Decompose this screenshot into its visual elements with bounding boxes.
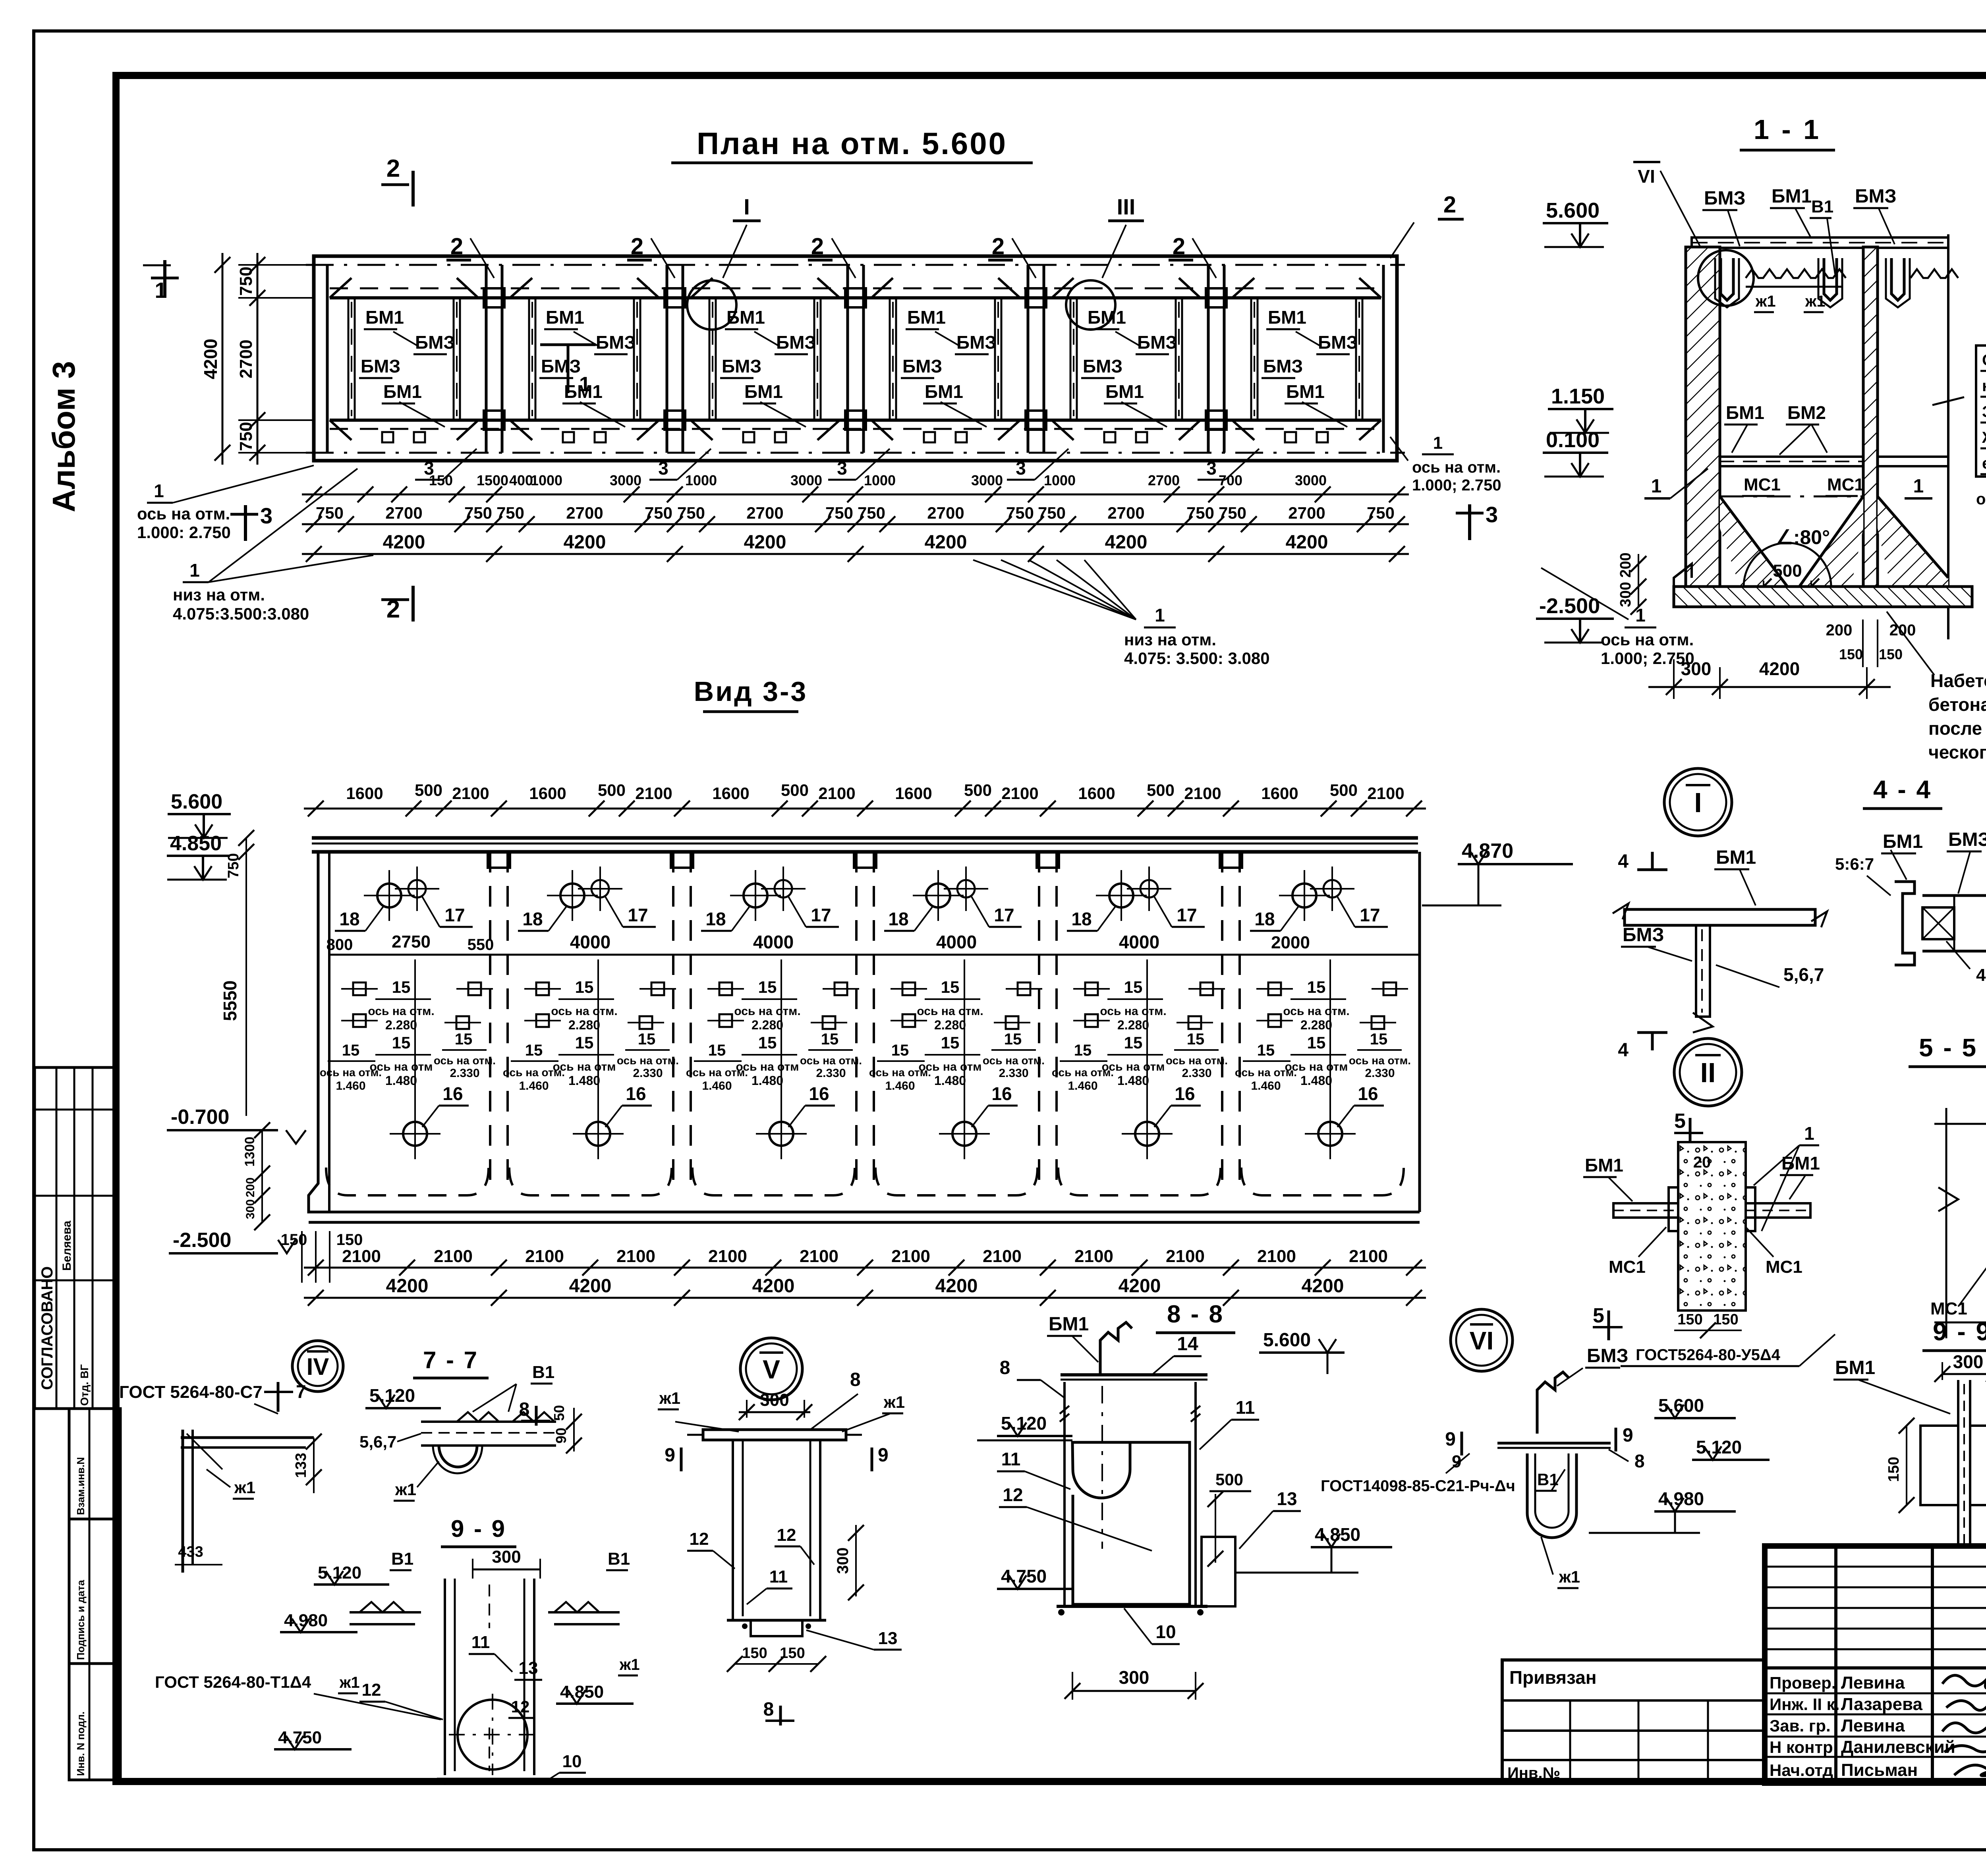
svg-text:400: 400	[509, 472, 533, 488]
svg-text:4200: 4200	[383, 532, 425, 553]
svg-text:12: 12	[362, 1680, 381, 1700]
svg-text:5 - 5: 5 - 5	[1919, 1033, 1978, 1062]
svg-text:БМЗ: БМЗ	[776, 332, 816, 353]
svg-text:750: 750	[1219, 504, 1246, 522]
view 3-3 mid horizontal line	[329, 954, 1420, 956]
section 1-1 right cut line	[1947, 234, 1949, 639]
svg-text:1.460: 1.460	[1068, 1079, 1097, 1092]
svg-text:низ на отм.: низ на отм.	[173, 585, 265, 604]
svg-text:Зав. гр.: Зав. гр.	[1770, 1716, 1831, 1735]
view 3-3 square anchors 15	[353, 982, 366, 995]
svg-text:3000: 3000	[790, 472, 822, 488]
svg-text:БМЗ: БМЗ	[1137, 332, 1177, 353]
svg-text:2100: 2100	[800, 1247, 838, 1266]
svg-text:3: 3	[1016, 458, 1026, 479]
svg-text:17: 17	[1360, 905, 1380, 925]
svg-text:Инв. N подл.: Инв. N подл.	[75, 1712, 87, 1776]
svg-text:ось на отм.: ось на отм.	[917, 1005, 983, 1018]
svg-text:В1: В1	[391, 1549, 413, 1569]
svg-text:2: 2	[1443, 192, 1456, 218]
svg-text:18: 18	[339, 909, 359, 929]
plan interior stub partitions	[348, 298, 350, 420]
svg-text:15: 15	[525, 1042, 543, 1059]
svg-text:БМЗ: БМЗ	[1948, 829, 1986, 850]
svg-text:Набетонка из: Набетонка из	[1930, 670, 1986, 691]
svg-text:1.000: 2.750: 1.000: 2.750	[137, 523, 231, 542]
svg-text:18: 18	[1071, 909, 1092, 929]
svg-text:9: 9	[1623, 1425, 1633, 1446]
svg-text:ной краской светлых тонов: ной краской светлых тонов	[1982, 377, 1986, 395]
svg-text:1600: 1600	[1078, 784, 1115, 803]
svg-text:БМЗ: БМЗ	[956, 332, 996, 353]
svg-text:I: I	[1694, 787, 1702, 818]
svg-text:2100: 2100	[1074, 1247, 1113, 1266]
svg-text:2.280: 2.280	[1300, 1018, 1332, 1032]
svg-text:БМ1: БМ1	[1105, 381, 1144, 402]
svg-text:2.330: 2.330	[999, 1067, 1028, 1080]
view 3-3 bottom dashed line	[326, 1168, 489, 1195]
plan dimension chain row1	[302, 494, 1409, 496]
svg-text:18: 18	[522, 909, 543, 929]
svg-text:15: 15	[891, 1042, 909, 1059]
svg-text:ось на отм.: ось на отм.	[1166, 1054, 1228, 1067]
svg-text:750: 750	[1038, 504, 1066, 522]
svg-text:5:6:7: 5:6:7	[1835, 855, 1874, 873]
svg-text:VI: VI	[1470, 1326, 1493, 1355]
svg-text:Альбом 3: Альбом 3	[46, 361, 81, 512]
svg-text:2100: 2100	[818, 784, 855, 803]
svg-text:МС1: МС1	[1827, 475, 1864, 494]
view 3-3 bottom solid band	[309, 1221, 1420, 1224]
svg-text:Окраска поливинилацетат: Окраска поливинилацетат	[1982, 351, 1986, 369]
svg-text:4.750: 4.750	[278, 1728, 322, 1747]
svg-text:4200: 4200	[925, 532, 967, 553]
svg-text:18: 18	[705, 909, 726, 929]
svg-text:2: 2	[992, 234, 1005, 259]
node V circle	[740, 1338, 802, 1400]
svg-text:2100: 2100	[1184, 784, 1221, 803]
svg-text:1.480: 1.480	[568, 1073, 600, 1088]
svg-text:4 - 4: 4 - 4	[1873, 775, 1932, 804]
title block left columns	[1834, 1546, 1837, 1783]
svg-text:3: 3	[658, 458, 668, 479]
svg-text:ж1: ж1	[1755, 293, 1776, 310]
svg-text:5: 5	[1674, 1110, 1686, 1133]
svg-text:ось на отм.: ось на отм.	[983, 1054, 1045, 1067]
section 1-1 roof slab	[1692, 237, 1948, 248]
section 1-1 anchor U profiles	[1721, 258, 1733, 300]
svg-text:4200: 4200	[744, 532, 786, 553]
svg-text:4200: 4200	[569, 1276, 612, 1297]
svg-text:ж1: ж1	[883, 1393, 905, 1411]
svg-text:750: 750	[677, 504, 705, 522]
svg-text:ось на отм.: ось на отм.	[1349, 1054, 1411, 1067]
svg-text:4: 4	[1618, 1040, 1629, 1061]
svg-text:ось на отм.: ось на отм.	[320, 1066, 382, 1079]
svg-text:ось на отм.: ось на отм.	[1100, 1005, 1166, 1018]
svg-text:БМ1: БМ1	[1049, 1314, 1089, 1335]
svg-text:17: 17	[1177, 905, 1197, 925]
svg-text:1.460: 1.460	[336, 1079, 365, 1092]
title block outer	[1765, 1546, 1986, 1783]
svg-text:Инж. II к.: Инж. II к.	[1770, 1695, 1839, 1714]
svg-text:2.280: 2.280	[568, 1018, 600, 1032]
svg-text:1.000; 2.750: 1.000; 2.750	[1412, 477, 1501, 494]
svg-text:3000: 3000	[971, 472, 1003, 488]
svg-text:В1: В1	[532, 1363, 554, 1382]
plan bottom interior wall line	[330, 419, 1381, 422]
svg-text:БМ1: БМ1	[1772, 186, 1812, 207]
svg-text:1600: 1600	[895, 784, 932, 803]
svg-text:2700: 2700	[746, 504, 783, 522]
svg-text:Взам.инв.N: Взам.инв.N	[75, 1457, 87, 1515]
svg-text:8: 8	[850, 1369, 861, 1390]
svg-text:1600: 1600	[712, 784, 749, 803]
svg-text:7: 7	[296, 1381, 306, 1402]
svg-text:15: 15	[708, 1042, 726, 1059]
svg-text:2700: 2700	[927, 504, 964, 522]
section 1-1 middle wall hatched	[1863, 247, 1878, 587]
svg-text:2700: 2700	[1107, 504, 1144, 522]
svg-text:Привязан: Привязан	[1509, 1667, 1597, 1688]
detail 8-8 inner vessel	[1072, 1442, 1190, 1604]
svg-text:800: 800	[326, 936, 353, 953]
svg-text:ось на отм.: ось на отм.	[1052, 1066, 1114, 1079]
svg-text:емкости РЕ 1: емкости РЕ 1	[1982, 455, 1986, 472]
svg-text:I: I	[744, 194, 750, 219]
svg-text:В1: В1	[608, 1549, 630, 1569]
svg-text:3000: 3000	[1295, 472, 1327, 488]
plan dimension chain row2	[302, 523, 1409, 525]
svg-text:9: 9	[1445, 1429, 1456, 1450]
svg-text:3: 3	[1206, 458, 1217, 479]
svg-text:ось на отм.: ось на отм.	[869, 1066, 931, 1079]
svg-text:Затирка цементно-песч. р-ос: Затирка цементно-песч. р-ос	[1982, 403, 1986, 421]
svg-text:4200: 4200	[1759, 658, 1800, 679]
svg-text:4200: 4200	[1286, 532, 1328, 553]
svg-text:Данилевский: Данилевский	[1841, 1737, 1955, 1757]
svg-text:1500: 1500	[477, 472, 508, 488]
svg-text:8: 8	[1634, 1451, 1645, 1471]
svg-text:3: 3	[837, 458, 847, 479]
svg-text:5: 5	[1593, 1304, 1604, 1327]
svg-text:-0.700: -0.700	[171, 1106, 229, 1129]
svg-text:2100: 2100	[708, 1247, 747, 1266]
svg-text:БМЗ: БМЗ	[1318, 332, 1358, 353]
svg-text:БМЗ: БМЗ	[902, 356, 942, 376]
svg-text:750: 750	[1186, 504, 1214, 522]
svg-text:15: 15	[638, 1031, 656, 1048]
svg-text:1000: 1000	[864, 472, 896, 488]
svg-text:150: 150	[1713, 1311, 1738, 1328]
svg-text:500: 500	[598, 781, 626, 799]
svg-text:2750: 2750	[392, 932, 431, 952]
view 3-3 anchors 18/17 per bay	[377, 884, 401, 907]
svg-text:БМЗ: БМЗ	[541, 356, 581, 376]
svg-text:4.850: 4.850	[170, 832, 222, 855]
svg-text:17: 17	[811, 905, 831, 925]
svg-text:4200: 4200	[1302, 1276, 1344, 1297]
svg-text:2100: 2100	[525, 1247, 564, 1266]
svg-text:ось на отм.: ось на отм.	[1412, 459, 1501, 476]
svg-text:15: 15	[1074, 1042, 1092, 1059]
svg-text:ось на отм.: ось на отм.	[1235, 1066, 1297, 1079]
svg-text:3000: 3000	[610, 472, 641, 488]
svg-text:1: 1	[1804, 1123, 1814, 1144]
svg-text:БМ1: БМ1	[546, 307, 584, 328]
svg-text:1.480: 1.480	[1117, 1073, 1149, 1088]
svg-text:ческого оборудования: ческого оборудования	[1928, 742, 1986, 762]
svg-text:БМ1: БМ1	[1726, 402, 1764, 423]
svg-text:2100: 2100	[983, 1247, 1022, 1266]
svg-text:8 - 8: 8 - 8	[1167, 1301, 1224, 1328]
svg-text:11: 11	[471, 1633, 490, 1652]
svg-text:750: 750	[236, 266, 256, 295]
svg-text:17: 17	[628, 905, 648, 925]
svg-text:8: 8	[519, 1399, 530, 1420]
svg-text:1.480: 1.480	[752, 1073, 783, 1088]
svg-text:5.600: 5.600	[1546, 199, 1600, 222]
svg-text:3: 3	[260, 503, 272, 528]
svg-text:2700: 2700	[1148, 472, 1180, 488]
svg-text:500: 500	[964, 781, 992, 799]
svg-text:после монтажа технолош-: после монтажа технолош-	[1928, 718, 1986, 739]
svg-text:Отд. ВГ: Отд. ВГ	[78, 1364, 91, 1406]
svg-text:ж1: ж1	[395, 1480, 416, 1499]
view 3-3 bay divider dashed lines	[489, 852, 491, 1183]
svg-text:1.460: 1.460	[885, 1079, 915, 1092]
svg-text:300: 300	[760, 1390, 789, 1410]
section 1-1 corrugated sheet B1	[1746, 269, 1846, 278]
svg-text:БМ1: БМ1	[907, 307, 946, 328]
svg-text:БМ1: БМ1	[925, 381, 963, 402]
svg-text:2100: 2100	[452, 784, 489, 803]
svg-text:ось на отм.: ось на отм.	[551, 1005, 617, 1018]
svg-text:4.075: 3.500: 3.080: 4.075: 3.500: 3.080	[1124, 649, 1270, 668]
svg-text:20: 20	[1693, 1154, 1711, 1171]
svg-text:300 200: 300 200	[1617, 552, 1634, 607]
svg-text:ось на отм.: ось на отм.	[1601, 630, 1694, 649]
plan left vertical dimensions	[257, 253, 259, 465]
svg-text:2.330: 2.330	[450, 1067, 479, 1080]
svg-text:БМ1: БМ1	[365, 307, 404, 328]
plan partition walls	[326, 265, 329, 453]
binding table Привязан	[1502, 1660, 1765, 1783]
svg-text:Железобетонная стенка: Железобетонная стенка	[1982, 429, 1986, 446]
svg-text:200: 200	[1826, 621, 1853, 639]
svg-text:низ на отм.: низ на отм.	[1124, 630, 1216, 649]
svg-text:4.750: 4.750	[1001, 1566, 1047, 1586]
svg-text:5.120: 5.120	[1696, 1437, 1742, 1457]
svg-text:Инв.№: Инв.№	[1507, 1764, 1560, 1782]
svg-text:5.120: 5.120	[1001, 1413, 1047, 1434]
svg-text:Вид 3-3: Вид 3-3	[694, 676, 808, 707]
note окраска box	[1976, 345, 1986, 477]
svg-text:2: 2	[386, 155, 400, 182]
svg-text:15: 15	[392, 978, 411, 996]
svg-text:15: 15	[1187, 1031, 1205, 1048]
svg-text:300: 300	[1119, 1667, 1149, 1688]
svg-text:500: 500	[1773, 561, 1802, 581]
section 1-1 hopper slopes hatched	[1720, 496, 1787, 587]
svg-text:14: 14	[1177, 1334, 1198, 1355]
node VI circle	[1451, 1309, 1513, 1371]
svg-text:1.460: 1.460	[519, 1079, 549, 1092]
svg-text:200: 200	[1889, 621, 1916, 639]
svg-text:2: 2	[631, 234, 643, 259]
svg-text:5.600: 5.600	[1658, 1395, 1704, 1416]
svg-text:2.280: 2.280	[752, 1018, 783, 1032]
svg-text:13: 13	[1277, 1488, 1297, 1509]
svg-text:2.330: 2.330	[816, 1067, 846, 1080]
svg-text:Беляева: Беляева	[60, 1220, 73, 1271]
svg-text:300: 300	[1681, 658, 1712, 679]
svg-text:15: 15	[1307, 1033, 1326, 1052]
svg-text:БМ1: БМ1	[1268, 307, 1306, 328]
svg-text:1600: 1600	[529, 784, 566, 803]
svg-text:11: 11	[1236, 1397, 1255, 1418]
svg-text:3: 3	[1486, 502, 1498, 527]
svg-text:1000: 1000	[531, 472, 562, 488]
svg-text:1000: 1000	[685, 472, 717, 488]
svg-text:15: 15	[821, 1031, 839, 1048]
svg-text:4000: 4000	[1119, 932, 1159, 952]
svg-text:1600: 1600	[1261, 784, 1298, 803]
plan dimension chain row3 4200	[302, 553, 1409, 555]
svg-text:1: 1	[579, 373, 591, 396]
svg-text:Подпись и дата: Подпись и дата	[75, 1580, 87, 1660]
svg-text:15: 15	[1004, 1031, 1022, 1048]
svg-text:133: 133	[293, 1453, 309, 1478]
svg-text:2.280: 2.280	[934, 1018, 966, 1032]
svg-text:18: 18	[888, 909, 908, 929]
svg-text:1.000; 2.750: 1.000; 2.750	[1601, 649, 1694, 668]
svg-text:II: II	[1700, 1057, 1716, 1088]
svg-text:16: 16	[1175, 1083, 1195, 1104]
svg-text:13: 13	[519, 1658, 538, 1678]
svg-text:Нач.отд: Нач.отд	[1770, 1761, 1833, 1779]
svg-text:500: 500	[781, 781, 809, 799]
svg-text:16: 16	[442, 1083, 463, 1104]
svg-text:2700: 2700	[1288, 504, 1325, 522]
svg-text:ж1: ж1	[1805, 293, 1826, 310]
svg-text:БМЗ: БМЗ	[415, 332, 455, 353]
svg-text:433: 433	[178, 1544, 203, 1560]
svg-text:11: 11	[769, 1567, 788, 1586]
svg-text:10: 10	[562, 1752, 582, 1771]
svg-text:2100: 2100	[342, 1247, 381, 1266]
svg-text:4.980: 4.980	[284, 1611, 328, 1630]
svg-text:11: 11	[1001, 1449, 1021, 1469]
svg-text:15: 15	[758, 978, 777, 996]
plan top interior wall line	[330, 296, 1381, 299]
svg-text:-2.500: -2.500	[1539, 594, 1600, 618]
svg-text:БМЗ: БМЗ	[361, 356, 400, 376]
svg-text:8: 8	[763, 1699, 774, 1720]
svg-text:Левина: Левина	[1841, 1716, 1905, 1735]
svg-text:2100: 2100	[1349, 1247, 1388, 1266]
svg-text:2.280: 2.280	[385, 1018, 417, 1032]
node II circle	[1674, 1038, 1742, 1106]
plan bottom edge line	[306, 452, 1405, 454]
svg-text:ось на отм.: ось на отм.	[434, 1054, 496, 1067]
svg-text:4.850: 4.850	[560, 1682, 604, 1702]
svg-text:150: 150	[742, 1645, 767, 1662]
svg-text:4000: 4000	[570, 932, 610, 952]
svg-text:5550: 5550	[220, 980, 240, 1021]
svg-text:300: 300	[834, 1548, 852, 1574]
plan outer wall	[314, 256, 1397, 461]
svg-text:2.330: 2.330	[633, 1067, 663, 1080]
svg-text:1300: 1300	[242, 1137, 257, 1167]
svg-text:5.600: 5.600	[1263, 1330, 1311, 1351]
svg-text:2.330: 2.330	[1182, 1067, 1211, 1080]
svg-text:2: 2	[450, 234, 463, 259]
node I detail T-beam	[1651, 852, 1654, 870]
svg-text:4200: 4200	[1119, 1276, 1161, 1297]
svg-text:0.100: 0.100	[1546, 428, 1600, 452]
svg-text:МС1: МС1	[1744, 475, 1781, 494]
svg-text:4000: 4000	[753, 932, 794, 952]
svg-text:4200: 4200	[1105, 532, 1148, 553]
svg-text:СОГЛАСОВАНО: СОГЛАСОВАНО	[39, 1266, 56, 1390]
view 3-3 bottom dim chains	[304, 1267, 1426, 1269]
svg-text:2100: 2100	[434, 1247, 473, 1266]
svg-text:1: 1	[189, 560, 200, 581]
svg-text:2: 2	[811, 234, 824, 259]
svg-text:4200: 4200	[752, 1276, 795, 1297]
svg-text:1: 1	[154, 481, 164, 501]
svg-text:9 - 9: 9 - 9	[451, 1515, 506, 1542]
svg-text:БМЗ: БМЗ	[596, 332, 636, 353]
svg-text:ось на отм.: ось на отм.	[1283, 1005, 1349, 1018]
svg-text:ж1: ж1	[659, 1389, 680, 1407]
svg-text:15: 15	[1124, 1033, 1143, 1052]
svg-text:750: 750	[825, 504, 853, 522]
svg-text:16: 16	[991, 1083, 1012, 1104]
svg-text:V: V	[763, 1355, 780, 1384]
svg-text:50: 50	[551, 1405, 567, 1421]
svg-text:2.330: 2.330	[1365, 1067, 1395, 1080]
svg-text:ж1: ж1	[1559, 1567, 1580, 1586]
node circle I on plan	[687, 280, 736, 330]
svg-text:15: 15	[1307, 978, 1326, 996]
svg-text:500: 500	[1215, 1470, 1243, 1489]
svg-text:1600: 1600	[346, 784, 383, 803]
svg-text:4.980: 4.980	[1658, 1488, 1704, 1509]
svg-text:750: 750	[316, 504, 344, 522]
svg-text:15: 15	[1370, 1031, 1388, 1048]
svg-text:16: 16	[1358, 1083, 1378, 1104]
svg-text:4200: 4200	[564, 532, 606, 553]
svg-text:300: 300	[492, 1547, 521, 1567]
svg-text:15: 15	[455, 1031, 473, 1048]
svg-text:1 - 1: 1 - 1	[1754, 114, 1821, 145]
svg-text:2: 2	[1173, 234, 1185, 259]
svg-text:Письман: Письман	[1841, 1760, 1918, 1780]
svg-text:7 - 7: 7 - 7	[423, 1347, 479, 1373]
svg-text:9: 9	[665, 1445, 675, 1466]
svg-text:10: 10	[1155, 1621, 1176, 1642]
view 3-3 outline	[309, 852, 1420, 1212]
svg-text:План на отм. 5.600: План на отм. 5.600	[697, 126, 1007, 161]
inventory strip table	[69, 1409, 120, 1780]
svg-text:3: 3	[424, 458, 434, 479]
svg-text:МС1: МС1	[1609, 1257, 1646, 1277]
svg-text:4.850: 4.850	[1315, 1524, 1360, 1545]
svg-text:1000: 1000	[1044, 472, 1076, 488]
svg-text:4200: 4200	[935, 1276, 978, 1297]
